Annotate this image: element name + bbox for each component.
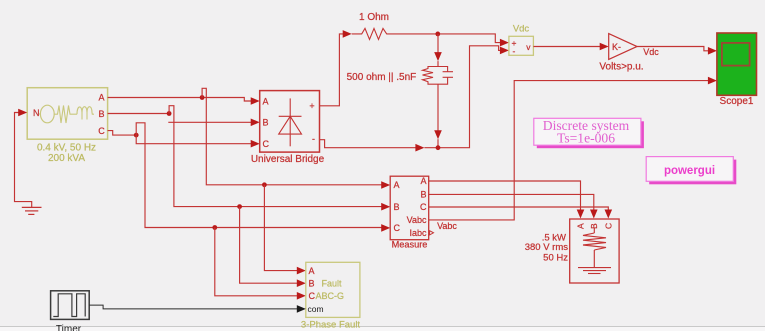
- svg-text:C: C: [98, 126, 105, 136]
- arrowhead mid-wire: [415, 144, 424, 152]
- label 500 ohm .5nF: [347, 72, 417, 83]
- svg-text:A: A: [576, 223, 586, 229]
- three-phase source block: [27, 88, 107, 140]
- Vdc voltage measurement block: [509, 36, 534, 56]
- wire C (source C): [108, 131, 137, 136]
- node on Measure-B wire: [237, 204, 242, 209]
- wire C hop and drop to Measure C: [136, 123, 383, 228]
- svg-text:3-Phase Fault: 3-Phase Fault: [301, 319, 361, 330]
- svg-text:B: B: [394, 202, 400, 212]
- svg-text:Vabc: Vabc: [437, 221, 457, 231]
- wire Vabc to scope input2: [429, 81, 710, 220]
- svg-text:A: A: [263, 96, 269, 106]
- arrowhead load B: [590, 210, 598, 219]
- svg-text:C: C: [263, 139, 270, 149]
- wire timer to fault com: [89, 305, 299, 309]
- svg-text:Volts>p.u.: Volts>p.u.: [599, 61, 643, 72]
- svg-text:C: C: [603, 223, 613, 229]
- bridge label: [251, 154, 325, 165]
- arrowhead fault C: [297, 292, 306, 300]
- node on wire B: [167, 111, 172, 116]
- label Vdc on wire: [643, 47, 659, 57]
- wire RC bottom down: [437, 84, 439, 132]
- load label: [525, 232, 569, 263]
- svg-text:Iabc: Iabc: [409, 228, 427, 238]
- Scope1 label: [720, 96, 754, 107]
- load block .5kW: [570, 219, 619, 283]
- svg-text:-: -: [312, 134, 315, 144]
- node bridge-minus / RC junction: [436, 145, 441, 150]
- ground: [22, 207, 42, 214]
- wire Measure B out to load: [429, 194, 594, 211]
- node on Measure-C wire: [212, 225, 217, 230]
- Measure label: [392, 240, 428, 250]
- resistor 1 Ohm: [352, 28, 391, 39]
- arrowhead bridge B: [251, 119, 260, 127]
- arrowhead scope input2: [708, 77, 717, 85]
- wire gain to scope input1: [637, 47, 709, 51]
- wire bridge + up to 1 Ohm: [320, 34, 345, 106]
- svg-text:v: v: [526, 42, 531, 52]
- svg-text:ABC-G: ABC-G: [316, 291, 345, 301]
- arrowhead N input: [18, 109, 27, 117]
- arrowhead 1 Ohm: [343, 30, 352, 38]
- Timer block: [51, 291, 90, 320]
- label Vabc on wire: [437, 221, 457, 231]
- svg-text:Fault: Fault: [322, 279, 343, 289]
- powergui block: [646, 157, 736, 185]
- arrowhead Measure A: [381, 181, 390, 189]
- wire Measure A out to load: [429, 181, 581, 211]
- svg-text:1 Ohm: 1 Ohm: [359, 12, 389, 23]
- wire to bridge C: [136, 135, 252, 144]
- arrowhead fault A: [297, 267, 306, 275]
- gain Volts>p.u.: [609, 34, 637, 60]
- svg-text:Scope1: Scope1: [720, 96, 754, 107]
- svg-text:A: A: [420, 176, 426, 186]
- fault label: [301, 319, 361, 330]
- arrowhead fault com: [297, 305, 306, 313]
- svg-text:B: B: [309, 279, 315, 289]
- arrowhead load C: [605, 210, 613, 219]
- svg-text:Ts=1e-006: Ts=1e-006: [557, 130, 615, 145]
- svg-text:C: C: [420, 202, 427, 212]
- svg-text:50 Hz: 50 Hz: [543, 252, 568, 263]
- Discrete system annotation: [534, 118, 644, 148]
- arrowhead fault B: [297, 279, 306, 287]
- window bottom edge: [0, 327, 765, 331]
- wire N to ground: [15, 113, 32, 208]
- wire to bridge B: [168, 121, 252, 123]
- svg-text:B: B: [420, 190, 426, 200]
- svg-text:B: B: [589, 223, 599, 229]
- svg-text:Timer: Timer: [56, 324, 82, 331]
- arrowhead gain input: [600, 43, 609, 51]
- wire branch to fault B: [240, 207, 299, 284]
- Scope1 block: [717, 33, 757, 95]
- arrowhead bridge C: [251, 140, 260, 148]
- wire down to RC snubber: [437, 34, 439, 54]
- source label 0.4 kV, 50 Hz / 200 kVA: [37, 143, 96, 164]
- wire Measure C out to load: [429, 207, 609, 211]
- svg-text:Vdc: Vdc: [513, 23, 530, 34]
- arrowhead Vdc -: [500, 47, 509, 55]
- svg-text:C: C: [309, 291, 316, 301]
- svg-text:200 kVA: 200 kVA: [48, 153, 85, 164]
- svg-text:-: -: [513, 46, 516, 56]
- universal bridge block: [260, 91, 320, 153]
- svg-text:A: A: [309, 266, 315, 276]
- arrowhead Measure B: [381, 203, 390, 211]
- arrowhead bridge A: [251, 97, 260, 105]
- svg-text:B: B: [263, 118, 269, 128]
- svg-text:0.4 kV, 50 Hz: 0.4 kV, 50 Hz: [37, 143, 96, 154]
- RC parallel block 500 ohm .5nF: [423, 67, 454, 85]
- gain label: [599, 61, 643, 72]
- node on wire A: [200, 95, 205, 100]
- svg-text:Universal Bridge: Universal Bridge: [251, 154, 325, 165]
- node on wire C: [134, 133, 139, 138]
- svg-text:Vdc: Vdc: [643, 47, 659, 57]
- wire A (source A to bridge A): [108, 98, 253, 102]
- svg-text:B: B: [98, 109, 104, 119]
- wire branch to fault A: [264, 185, 299, 271]
- wire bridge - to Vdc -: [320, 140, 418, 148]
- svg-text:com: com: [308, 304, 324, 314]
- wire 1 Ohm to Vdc +: [391, 34, 502, 43]
- svg-text:C: C: [394, 223, 401, 233]
- svg-text:A: A: [394, 180, 400, 190]
- svg-text:Vabc: Vabc: [407, 215, 427, 225]
- Measure block: [390, 176, 429, 240]
- node on 1 Ohm wire: [435, 32, 440, 37]
- arrowhead scope input1: [708, 47, 717, 55]
- wire B hop and drop to Measure B: [169, 106, 383, 207]
- svg-text:powergui: powergui: [664, 165, 715, 177]
- arrowhead Vdc +: [500, 39, 509, 47]
- svg-text:A: A: [98, 92, 104, 102]
- arrowhead into RC top: [434, 52, 442, 61]
- wire A branch down to Measure A: [202, 88, 383, 185]
- arrowhead load A: [577, 210, 585, 219]
- arrowhead RC bottom: [434, 130, 442, 139]
- svg-text:K-: K-: [612, 42, 621, 52]
- node on Measure-A wire: [262, 182, 267, 187]
- 3-Phase Fault block: [306, 262, 360, 317]
- arrowhead Measure C: [381, 224, 390, 232]
- svg-text:+: +: [309, 101, 314, 111]
- svg-text:N: N: [33, 108, 40, 118]
- svg-text:500 ohm || .5nF: 500 ohm || .5nF: [347, 72, 417, 83]
- Vdc block label: [513, 23, 530, 34]
- label 1 Ohm: [359, 12, 389, 23]
- svg-text:Measure: Measure: [392, 240, 428, 250]
- Timer label: [56, 324, 82, 331]
- wire v to gain: [533, 46, 601, 48]
- Iabc open arrow: [430, 231, 434, 235]
- wire B (source B): [108, 113, 170, 115]
- wire branch to fault C: [215, 228, 299, 296]
